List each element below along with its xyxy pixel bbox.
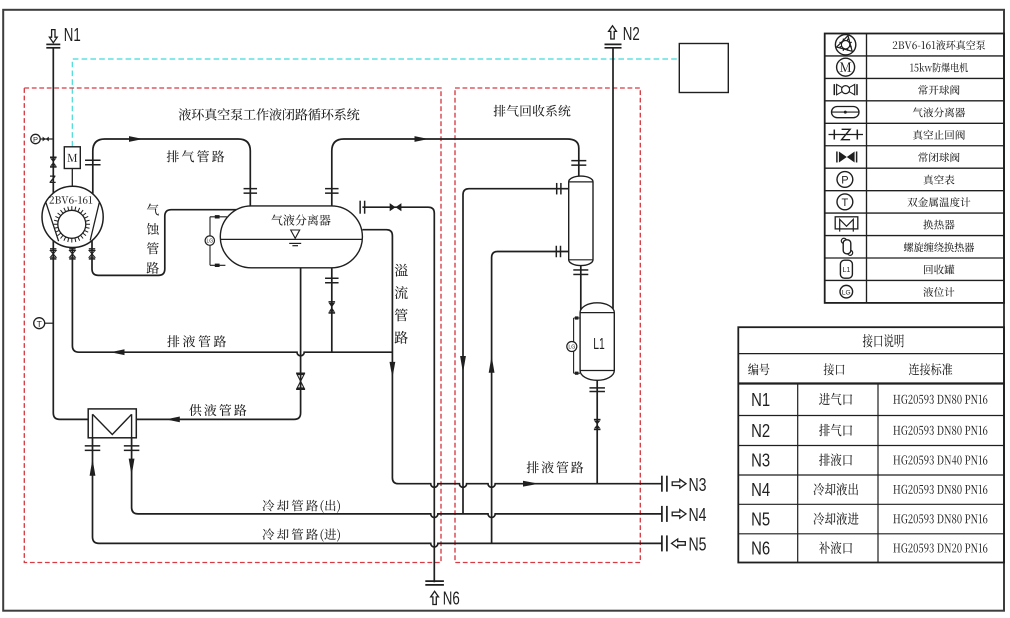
legend text 液位计 — [923, 287, 954, 297]
port N1 arrow — [49, 30, 57, 43]
svg-text:N5: N5 — [689, 535, 707, 555]
legend text 常开球阀 — [918, 85, 959, 95]
flange separator outlet — [325, 188, 339, 190]
arrow hx inlet up — [90, 459, 96, 476]
port N5 arrow — [672, 539, 686, 548]
valve makeup closed valve — [390, 203, 396, 211]
valve pump suction port — [50, 248, 56, 250]
legend symbol vacuum check valve — [829, 134, 864, 136]
legend text 气液分离器 — [913, 107, 965, 117]
legend symbol heat exchanger — [835, 217, 858, 229]
legend text 回收罐 — [924, 265, 954, 275]
svg-text:N4: N4 — [689, 505, 707, 525]
port N3 arrow — [672, 479, 686, 488]
flange hx inlet — [85, 445, 101, 447]
flange spiral hx top — [571, 160, 586, 162]
legend text 真空止回阀 — [913, 130, 965, 140]
wire exhaust line pump to separator — [93, 139, 251, 206]
valve supply line open — [296, 372, 305, 374]
legend symbol spiral hx — [843, 240, 851, 254]
legend text 2BV6-161液环真空泵 — [893, 40, 985, 50]
svg-text:LG: LG — [568, 345, 575, 351]
separator vessel 气液分离器 — [220, 206, 362, 268]
svg-text:P: P — [33, 135, 38, 144]
arrow recovery drain flow — [523, 481, 539, 487]
level gauge LG tank L1 — [574, 318, 581, 373]
label 气蚀管路 (vertical) — [147, 204, 159, 274]
legend symbol open ball valve — [833, 84, 835, 95]
flange pump exhaust — [85, 159, 101, 161]
valve N1 line closed valve — [50, 156, 57, 158]
wire pump drain line 排液管路 — [72, 247, 392, 355]
flange spiral hx upper side — [556, 183, 558, 195]
svg-text:T: T — [37, 319, 42, 329]
arrow supply flow — [166, 417, 180, 423]
arrow drain flow — [111, 349, 125, 355]
zone box: exhaust recovery system (red dashed) — [455, 88, 640, 563]
legend symbol vacuum gauge P — [837, 172, 853, 188]
port N4 flange — [661, 506, 663, 522]
wire recovery cooler lower inlet — [492, 252, 569, 544]
wire N1 suction line — [52, 48, 54, 194]
port N2 arrow — [609, 26, 617, 39]
svg-text:L1: L1 — [593, 336, 605, 353]
arrow cooler inlet up — [489, 356, 495, 373]
zone box: pump closed-loop system (red dashed) — [24, 88, 441, 563]
valve pump cavitation port — [89, 248, 95, 250]
wire supply return to pump — [53, 241, 88, 420]
port N6 flange — [425, 580, 444, 582]
valve tank L1 drain closed — [594, 419, 601, 421]
legend text 螺旋缠绕换热器 — [904, 242, 974, 252]
legend text 常闭球阀 — [918, 152, 959, 162]
label 排液管路 left — [167, 335, 226, 347]
svg-text:LG: LG — [842, 289, 851, 296]
thermometer T — [34, 318, 45, 329]
valve pump drain port — [69, 248, 75, 250]
svg-text:T: T — [842, 197, 849, 209]
legend symbol recovery tank — [840, 260, 852, 278]
pump label 2BV6-161 — [50, 196, 93, 204]
flange hx outlet — [124, 445, 140, 447]
wire cooling in 冷却管路(进) from N5 — [93, 414, 662, 547]
legend symbol level gauge — [840, 285, 853, 298]
control panel box — [679, 44, 728, 93]
label 冷却管路(出) — [263, 500, 340, 513]
svg-text:N3: N3 — [751, 451, 770, 471]
port N1 flange — [46, 43, 60, 45]
wire control signal (cyan dashed) motor-to-panel — [72, 59, 679, 147]
wire makeup line to N6 — [362, 207, 434, 582]
spiral heat exchanger vessel — [569, 176, 593, 265]
svg-text:N1: N1 — [751, 390, 770, 410]
heat exchanger 换热器 box — [88, 409, 136, 438]
svg-text:N2: N2 — [623, 24, 640, 44]
legend table grid — [825, 34, 1004, 303]
arrow cooler outlet down — [460, 356, 466, 373]
separator level mark — [291, 230, 300, 238]
pump port lines — [46, 202, 100, 241]
flange spiral hx bottom — [573, 269, 588, 271]
svg-text:LG: LG — [206, 239, 213, 245]
arrow hx outlet down — [129, 459, 135, 476]
wire cooling out 冷却管路(出) to N4 — [132, 414, 662, 517]
arrow overflow down — [390, 362, 396, 378]
interface table header 接口 — [824, 363, 845, 375]
svg-text:Z: Z — [49, 174, 56, 186]
legend symbol thermometer T — [837, 194, 853, 210]
svg-text:N6: N6 — [443, 588, 460, 608]
flange makeup line — [359, 201, 361, 214]
legend text 双金属温度计 — [907, 197, 970, 207]
vacuum gauge P — [31, 134, 40, 143]
wire recovery cooler to tank L1 — [580, 266, 582, 312]
recovery tank L1 — [580, 303, 614, 380]
wire tank L1 bottom drain — [596, 380, 598, 483]
svg-text:N6: N6 — [751, 538, 770, 558]
svg-text:P: P — [841, 174, 848, 186]
svg-text:N3: N3 — [689, 475, 707, 495]
flange spiral hx lower side — [555, 246, 557, 258]
svg-text:N2: N2 — [751, 421, 770, 441]
flange separator bottom — [325, 277, 339, 279]
arrow exhaust flow 2 — [415, 136, 429, 142]
port N4 arrow — [672, 510, 686, 519]
wire overflow line 溢流管路 and recovery drain line to N3 — [362, 230, 661, 488]
svg-text:N1: N1 — [64, 25, 81, 45]
port N6 arrow — [431, 591, 439, 604]
legend symbol pump — [835, 35, 855, 55]
valve separator bottom closed — [329, 301, 336, 303]
pump impeller circle with teeth — [58, 210, 86, 238]
wire exhaust line separator to recovery — [332, 139, 579, 206]
port N3 flange — [661, 476, 663, 492]
flange separator inlet — [244, 188, 257, 190]
separator label 气液分离器 — [271, 214, 330, 225]
pump 2BV6-161 casing circle — [42, 186, 103, 247]
label 供液管路 — [189, 404, 246, 416]
legend symbol separator — [832, 107, 860, 118]
wire motor to pump — [71, 169, 73, 187]
label 排气管路 — [167, 150, 225, 162]
legend symbol closed ball valve — [836, 151, 838, 162]
arrow exhaust flow 1 — [129, 136, 143, 142]
legend symbol motor — [837, 58, 855, 76]
wire cavitation line 气蚀管路 — [92, 210, 237, 276]
motor M box — [64, 147, 80, 169]
interface table title 接口说明 — [863, 334, 904, 347]
svg-text:L1: L1 — [843, 267, 851, 274]
svg-text:N5: N5 — [751, 509, 770, 529]
label 冷却管路(进) — [263, 528, 340, 541]
zone title 排气回收系统 — [494, 105, 571, 117]
label 溢流管路 (vertical) — [395, 264, 408, 344]
port N2 flange — [605, 43, 622, 45]
zone title 液环真空泵工作液闭路循环系统 — [179, 108, 360, 120]
interface table grid — [738, 327, 1004, 562]
interface table header 编号 — [748, 363, 769, 375]
flange tank L1 bottom — [589, 387, 605, 389]
wire N2 vent line — [612, 48, 614, 309]
wire supply line 供液管路 — [136, 268, 300, 420]
legend text 15kw防爆电机 — [910, 63, 968, 73]
level gauge LG separator — [210, 217, 227, 265]
wire recovery cooler upper outlet — [463, 189, 569, 514]
label 排液管路 right — [527, 461, 584, 473]
legend text 换热器 — [923, 220, 954, 230]
svg-text:N4: N4 — [751, 480, 770, 500]
legend text 真空表 — [924, 175, 955, 185]
interface table header 连接标准 — [909, 363, 953, 375]
wire separator bottom drain branch — [331, 268, 333, 352]
port N5 flange — [661, 535, 663, 551]
